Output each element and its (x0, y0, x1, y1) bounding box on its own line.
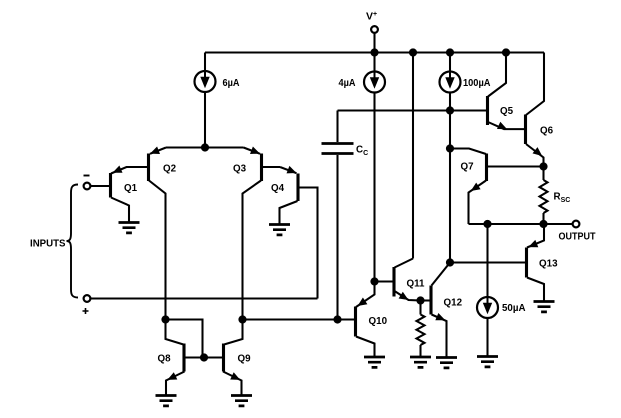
transistor Q2 body (147, 154, 150, 182)
label minus input (84, 175, 90, 177)
wire second stage node (243, 318, 356, 320)
transistor Q10 collector (356, 337, 375, 358)
transistor Q1 emitter to Q2 base (111, 167, 149, 174)
junction CC bottom at Q10 base (333, 315, 341, 323)
transistor Q12 emitter (432, 315, 447, 358)
wire top supply rail (205, 51, 544, 53)
transistor Q13 emitter (527, 224, 544, 248)
transistor Q9 emitter arrow (230, 372, 240, 380)
svg-text:INPUTS: INPUTS (30, 238, 66, 249)
transistor Q7 collector (450, 149, 486, 155)
capacitor CC top wire (336, 111, 338, 143)
wire Q10 base (338, 318, 356, 320)
transistor Q11 emitter arrow (399, 292, 409, 300)
current source I4 50uA (477, 297, 498, 318)
current source I3 100uA (440, 72, 461, 93)
svg-text:Q10: Q10 (369, 316, 388, 327)
wire 100uA top (449, 53, 451, 72)
svg-text:Q11: Q11 (407, 279, 426, 290)
wire rail to Q11 collector (412, 53, 414, 259)
transistor Q6 collector (526, 53, 544, 116)
svg-text:Q4: Q4 (271, 183, 285, 194)
input terminal minus (84, 183, 91, 190)
svg-text:Q1: Q1 (124, 183, 138, 194)
transistor Q7 emitter (469, 181, 487, 225)
transistor Q1 emitter arrow (113, 166, 123, 173)
svg-text:Q3: Q3 (233, 163, 247, 174)
capacitor CC bottom wire (336, 155, 338, 320)
resistor RSC (540, 180, 548, 213)
junction Q8/Q9 base tie (200, 353, 208, 361)
ground at Q1 (119, 223, 140, 233)
brace for inputs (67, 185, 79, 298)
wire Q8/Q9 bases (184, 356, 224, 358)
transistor Q6 emitter (526, 144, 544, 167)
transistor Q3 collector (243, 181, 262, 320)
svg-text:Q2: Q2 (163, 163, 177, 174)
transistor Q9 emitter (223, 372, 242, 396)
svg-text:6µA: 6µA (223, 78, 240, 89)
power terminal V+ wire (373, 33, 375, 53)
ground at R1 (410, 357, 431, 367)
transistor Q12 emitter arrow (435, 313, 445, 320)
wire minus input to Q1 base (90, 185, 111, 187)
junction Q6 emitter / Q7 base / RSC (539, 162, 547, 170)
output terminal (573, 221, 580, 228)
svg-text:Q13: Q13 (539, 259, 558, 270)
wire RSC leads (542, 167, 544, 181)
transistor Q6 emitter arrow (533, 147, 543, 156)
junction on rail above 100uA (446, 48, 454, 56)
transistor Q3 base to Q4 emitter (262, 166, 281, 168)
junction 50uA at output (483, 220, 491, 228)
junction 4uA / Q10 emitter / Q11 base (370, 277, 378, 285)
transistor Q8 body (182, 344, 185, 372)
capacitor CC (322, 144, 354, 154)
wire 4uA down to Q10/Q11 node (373, 93, 375, 282)
junction RSC bottom / Q13 emitter / output (539, 220, 547, 228)
svg-text:OUTPUT: OUTPUT (559, 232, 596, 243)
junction 100uA line at Q5 base rail (446, 106, 454, 114)
ground at Q12 (436, 358, 457, 368)
wire 50uA bottom (486, 318, 488, 357)
transistor Q5 emitter to Q6 base (488, 122, 526, 129)
transistor Q3 body (260, 154, 263, 182)
label plus input (83, 308, 89, 314)
ground at Q4 (269, 225, 290, 235)
transistor Q10 emitter (356, 282, 375, 308)
wire input tail horizontal (166, 146, 244, 148)
transistor Q12 collector (432, 263, 451, 286)
ground at Q13 (534, 302, 555, 312)
transistor Q9 body (222, 344, 225, 372)
svg-text:50µA: 50µA (502, 303, 526, 314)
transistor Q12 body (429, 286, 432, 315)
wire 4uA top (373, 53, 375, 72)
ground at Q10 (364, 357, 385, 367)
node input tail junction (201, 143, 209, 151)
transistor Q3 emitter arrow (250, 147, 260, 155)
transistor Q4 emitter wire (280, 167, 297, 173)
transistor Q9 collector (224, 320, 243, 345)
junction Q12 collector / Q13 base (446, 258, 454, 266)
transistor Q4 emitter arrow (287, 166, 297, 174)
junction Q2 collector / Q8 (161, 315, 169, 323)
transistor Q6 body (524, 115, 527, 145)
current source I1 6uA (195, 71, 216, 92)
resistor R1 under Q11 (417, 315, 425, 346)
transistor Q4 collector (280, 201, 298, 225)
ground at Q8 (156, 396, 177, 406)
transistor Q7 emitter arrow (471, 183, 481, 191)
junction Q11 emitter / Q12 base / R1 (416, 296, 424, 304)
svg-text:Q8: Q8 (158, 354, 172, 365)
junction on rail at Q11 branch (409, 48, 417, 56)
transistor Q3 emitter wire (244, 148, 261, 154)
wire Q13 base (450, 261, 526, 263)
transistor Q2 emitter arrow (150, 147, 160, 155)
transistor Q8 collector (166, 320, 184, 345)
wire Q11 base (375, 280, 395, 282)
transistor Q2 emitter wire (150, 148, 166, 154)
svg-text:4µA: 4µA (339, 78, 356, 89)
transistor Q1 body (109, 173, 112, 198)
transistor Q1 collector (111, 198, 129, 223)
transistor Q10 body (354, 307, 357, 337)
transistor Q4 base wire (298, 188, 318, 299)
wire plus input to Q4 base (90, 297, 318, 299)
current source I2 4uA (364, 72, 385, 93)
transistor Q8 emitter arrow (167, 372, 177, 380)
wire R1 leads (419, 301, 421, 315)
junction Q3 collector / Q9 (238, 315, 246, 323)
wire 6uA top (204, 53, 206, 72)
junction on rail at Q5 collector (502, 48, 510, 56)
wire output line (469, 223, 573, 225)
ground at Q9 (231, 396, 252, 406)
svg-text:Q12: Q12 (444, 298, 463, 309)
transistor Q13 emitter arrow (528, 240, 538, 247)
transistor Q5 body (486, 96, 489, 125)
wire Q12 base (421, 299, 432, 301)
ground at 50uA (477, 357, 498, 367)
wire 100uA down to Q13 base node (449, 93, 451, 263)
wire Q7 base (487, 165, 544, 167)
junction 100uA line at Q7 collector (446, 144, 454, 152)
svg-text:Q6: Q6 (540, 126, 554, 137)
transistor Q11 emitter (395, 291, 421, 301)
wire Q8 collector to base tie (166, 320, 203, 358)
junction on rail above 4uA (370, 48, 378, 56)
svg-text:Q9: Q9 (238, 354, 252, 365)
transistor Q5 emitter arrow (497, 122, 507, 129)
transistor Q8 emitter (166, 372, 185, 396)
power terminal V+ (371, 26, 378, 33)
transistor Q11 body (392, 267, 395, 297)
input terminal plus (84, 295, 91, 302)
transistor Q7 body (485, 154, 488, 182)
transistor Q13 collector (527, 278, 544, 302)
wire 50uA top (486, 224, 488, 297)
svg-text:Q5: Q5 (500, 106, 514, 117)
wire Q5 base rail (338, 109, 488, 111)
wire 6uA to input tail (204, 92, 206, 148)
transistor Q13 body (525, 248, 528, 278)
svg-text:100µA: 100µA (463, 78, 491, 89)
transistor Q10 emitter arrow (358, 298, 368, 307)
transistor Q11 collector (395, 259, 414, 268)
transistor Q2 collector (149, 181, 166, 320)
svg-text:Q7: Q7 (461, 162, 475, 173)
transistor Q4 body (296, 174, 299, 202)
transistor Q5 collector (488, 53, 506, 97)
